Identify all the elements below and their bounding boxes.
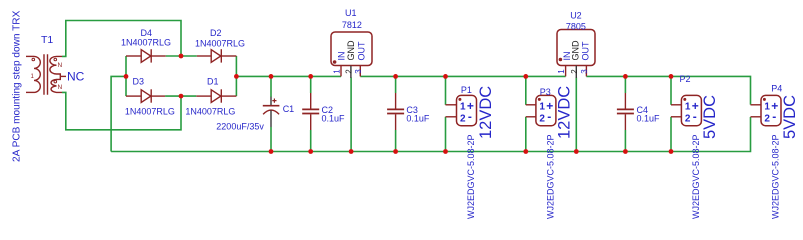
wire: P1 pin2 branch to bottom rail bbox=[445, 117, 447, 152]
U1 pin 3 stub bbox=[359, 66, 361, 77]
junction: bridge negative (left bus) bbox=[124, 74, 129, 79]
svg-text:U2: U2 bbox=[570, 11, 582, 21]
junction: C3 bottom bbox=[393, 149, 398, 154]
U1 pin1 marker dot bbox=[333, 60, 337, 64]
wire: bridge left bus bbox=[125, 56, 127, 96]
svg-text:2A PCB mounting step down TRX: 2A PCB mounting step down TRX bbox=[12, 10, 23, 162]
svg-text:WJ2EDGVC-5.08-2P: WJ2EDGVC-5.08-2P bbox=[691, 134, 701, 219]
svg-text:-: - bbox=[693, 110, 697, 124]
wire: bridge right bus bbox=[235, 56, 237, 96]
junction: U2 GND bottom bbox=[574, 149, 579, 154]
C1 bottom plate (arc) bbox=[263, 110, 279, 114]
P4 pin1 marker dot bbox=[763, 98, 766, 101]
wire: T1 secondary top to bridge AC1 (top loop) bbox=[62, 21, 181, 57]
P3 pin1 marker dot bbox=[538, 98, 541, 101]
svg-text:1: 1 bbox=[764, 101, 770, 112]
wire: C1 top bbox=[270, 76, 272, 97]
P1 pin 2 stub bbox=[446, 116, 457, 118]
wire: U2 GND to bottom rail bbox=[575, 78, 577, 152]
diode D4 bbox=[126, 49, 166, 62]
capacitor C2 bbox=[302, 93, 319, 130]
junction: bridge positive (right bus) bbox=[234, 74, 239, 79]
svg-text:GND: GND bbox=[571, 40, 581, 61]
junction: P2 bottom bbox=[669, 149, 674, 154]
P4 pin 2 stub bbox=[751, 116, 762, 118]
diode D1 bbox=[196, 89, 236, 102]
junction: U1 GND bottom bbox=[349, 149, 354, 154]
C1 bottom lead (dark) bbox=[270, 110, 272, 127]
T1 primary winding bbox=[34, 56, 40, 92]
U2 pin1 marker dot bbox=[559, 58, 563, 62]
C1 top lead (dark) bbox=[270, 97, 272, 106]
P1 pin 1 stub bbox=[446, 104, 457, 106]
svg-text:OUT: OUT bbox=[357, 41, 367, 61]
svg-text:1: 1 bbox=[685, 101, 691, 112]
regulator U1 body bbox=[331, 32, 372, 66]
svg-text:P1: P1 bbox=[461, 85, 472, 95]
wire: top rail segment bridge to U1 pin1 bbox=[236, 75, 341, 77]
svg-text:5VDC: 5VDC bbox=[781, 95, 799, 139]
U1 pin 1 stub bbox=[340, 66, 342, 77]
svg-text:5VDC: 5VDC bbox=[701, 95, 719, 139]
T1 core lines bbox=[44, 54, 48, 95]
svg-text:WJ2EDGVC-5.08-2P: WJ2EDGVC-5.08-2P bbox=[466, 134, 476, 219]
P2 pin1 marker dot bbox=[683, 98, 686, 101]
svg-text:2: 2 bbox=[460, 113, 466, 124]
svg-text:0.1uF: 0.1uF bbox=[637, 113, 661, 123]
svg-text:1N4007RLG: 1N4007RLG bbox=[185, 106, 235, 116]
svg-text:2: 2 bbox=[685, 113, 691, 124]
P2 pin 2 stub bbox=[671, 116, 681, 118]
svg-text:1: 1 bbox=[539, 101, 545, 112]
wire: bottom rail bbox=[111, 117, 750, 152]
svg-text:2200uF/35v: 2200uF/35v bbox=[216, 121, 264, 131]
svg-text:N: N bbox=[58, 62, 63, 69]
wire: P1 pin1 branch from top rail bbox=[445, 76, 447, 104]
U1 pin 2 stub bbox=[350, 66, 352, 78]
diode D3 bbox=[126, 89, 165, 102]
svg-text:2: 2 bbox=[764, 113, 770, 124]
wire: U1 GND to bottom rail bbox=[350, 78, 352, 152]
junction: C3 top bbox=[393, 74, 398, 79]
svg-text:-: - bbox=[468, 110, 472, 124]
wire: C3 top bbox=[395, 76, 397, 93]
svg-text:-: - bbox=[547, 110, 551, 124]
svg-text:12VDC: 12VDC bbox=[477, 86, 495, 139]
P3 pin 2 stub bbox=[526, 116, 536, 118]
wire: bridge negative tap to bottom rail bbox=[111, 76, 126, 151]
svg-text:P4: P4 bbox=[771, 84, 782, 94]
junction: bridge bottom AC node bbox=[179, 94, 184, 99]
junction: C1 bottom bbox=[269, 149, 274, 154]
svg-text:T1: T1 bbox=[41, 34, 53, 46]
svg-text:2: 2 bbox=[539, 113, 545, 124]
capacitor C1 (polarized) bbox=[263, 97, 280, 127]
svg-text:IN: IN bbox=[336, 52, 346, 61]
svg-text:0.1uF: 0.1uF bbox=[322, 113, 346, 123]
junction: C2 top bbox=[308, 74, 313, 79]
svg-text:P2: P2 bbox=[680, 74, 691, 84]
wire: C4 top bbox=[624, 76, 626, 93]
T1 secondary bottom winding bbox=[51, 76, 62, 92]
svg-text:WJ2EDGVC-5.08-2P: WJ2EDGVC-5.08-2P bbox=[545, 134, 555, 219]
wire: C3 bottom bbox=[395, 130, 397, 152]
U2 pin 1 stub bbox=[565, 66, 567, 77]
T1 primary polarity dot bbox=[32, 58, 35, 61]
C1 plus sign bbox=[272, 99, 276, 103]
U2 pin 3 stub bbox=[585, 66, 587, 77]
svg-text:OUT: OUT bbox=[580, 41, 590, 61]
T1 secondary top winding bbox=[50, 56, 62, 76]
svg-text:7805: 7805 bbox=[566, 22, 586, 32]
svg-text:2: 2 bbox=[345, 69, 354, 74]
U2 pin 2 stub bbox=[575, 66, 577, 79]
svg-text:7812: 7812 bbox=[342, 20, 362, 30]
svg-text:12VDC: 12VDC bbox=[555, 86, 573, 139]
svg-text:1: 1 bbox=[557, 69, 566, 74]
junction: bridge top AC node bbox=[179, 54, 184, 59]
capacitor C4 bbox=[617, 93, 634, 130]
svg-text:1N4007RLG: 1N4007RLG bbox=[195, 38, 245, 48]
junction: C4 top bbox=[623, 74, 628, 79]
C1 top plate bbox=[263, 105, 280, 107]
regulator U2 body bbox=[557, 30, 595, 66]
svg-text:1: 1 bbox=[333, 69, 342, 74]
wire: C4 bottom bbox=[624, 130, 626, 152]
svg-text:WJ2EDGVC-5.08-2P: WJ2EDGVC-5.08-2P bbox=[771, 134, 781, 219]
svg-text:GND: GND bbox=[346, 40, 356, 61]
wires (green) bbox=[62, 21, 751, 152]
svg-text:1: 1 bbox=[460, 101, 466, 112]
wire: D4 cathode to D2 anode (top AC node) bbox=[166, 55, 197, 57]
svg-text:3: 3 bbox=[580, 69, 589, 74]
wire: P3 pin1 branch from top rail bbox=[525, 76, 527, 104]
junction: P3 top bbox=[523, 74, 528, 79]
T1 primary top lead bbox=[26, 55, 34, 57]
connector P1 body bbox=[457, 95, 477, 125]
svg-text:3: 3 bbox=[354, 69, 363, 74]
svg-text:0.1uF: 0.1uF bbox=[406, 113, 430, 123]
wire: top rail segment U2 pin3 to P4 bbox=[586, 76, 750, 104]
svg-text:1N4007RLG: 1N4007RLG bbox=[121, 38, 171, 48]
wire: P3 pin2 branch to bottom rail bbox=[525, 117, 527, 152]
diode D2 bbox=[197, 49, 237, 62]
junction: C1 top bbox=[269, 74, 274, 79]
P4 pin 1 stub bbox=[751, 104, 762, 106]
svg-text:D1: D1 bbox=[207, 77, 219, 87]
wire: D3 cathode to D1 anode (bottom AC node) bbox=[165, 95, 196, 97]
junction: P2 top bbox=[669, 74, 674, 79]
wire: C1 bottom bbox=[270, 127, 272, 152]
svg-text:D2: D2 bbox=[210, 28, 222, 38]
P3 pin 1 stub bbox=[526, 104, 536, 106]
wire: P2 pin1 branch from top rail bbox=[670, 76, 672, 104]
svg-text:1N4007RLG: 1N4007RLG bbox=[125, 106, 175, 116]
connector P2 body bbox=[681, 95, 701, 125]
svg-text:NC: NC bbox=[67, 70, 85, 84]
wire: top rail segment U1 pin3 to U2 pin1 bbox=[360, 75, 565, 77]
T1 center tap lead bbox=[60, 75, 66, 77]
connector P3 body bbox=[536, 95, 556, 125]
T1 secondary bottom polarity dot bbox=[54, 80, 57, 83]
connector P4 body bbox=[761, 95, 781, 125]
P1 pin1 marker dot bbox=[458, 98, 461, 101]
wire: P2 pin2 branch to bottom rail bbox=[670, 117, 672, 152]
junction: C4 bottom bbox=[623, 149, 628, 154]
svg-text:U1: U1 bbox=[345, 8, 357, 18]
junction: P3 bottom bbox=[523, 149, 528, 154]
P2 pin 1 stub bbox=[671, 104, 681, 106]
junction: P1 bottom bbox=[443, 149, 448, 154]
wire: C2 bottom bbox=[310, 130, 312, 152]
svg-text:N: N bbox=[58, 84, 63, 91]
svg-text:D3: D3 bbox=[133, 77, 145, 87]
svg-text:P3: P3 bbox=[540, 87, 551, 97]
svg-text:-: - bbox=[772, 110, 776, 124]
capacitor C3 bbox=[387, 93, 404, 130]
wire: C2 top bbox=[310, 76, 312, 93]
junction: P1 top bbox=[443, 74, 448, 79]
svg-text:C1: C1 bbox=[283, 104, 295, 114]
T1 primary bottom lead bbox=[26, 91, 34, 93]
junction: C2 bottom bbox=[308, 149, 313, 154]
svg-text:2: 2 bbox=[570, 69, 579, 74]
wire: T1 secondary bottom to bridge AC2 (bottom loop) bbox=[62, 92, 181, 129]
transformer T1 bbox=[26, 54, 66, 95]
T1 secondary top polarity dot bbox=[54, 58, 57, 61]
